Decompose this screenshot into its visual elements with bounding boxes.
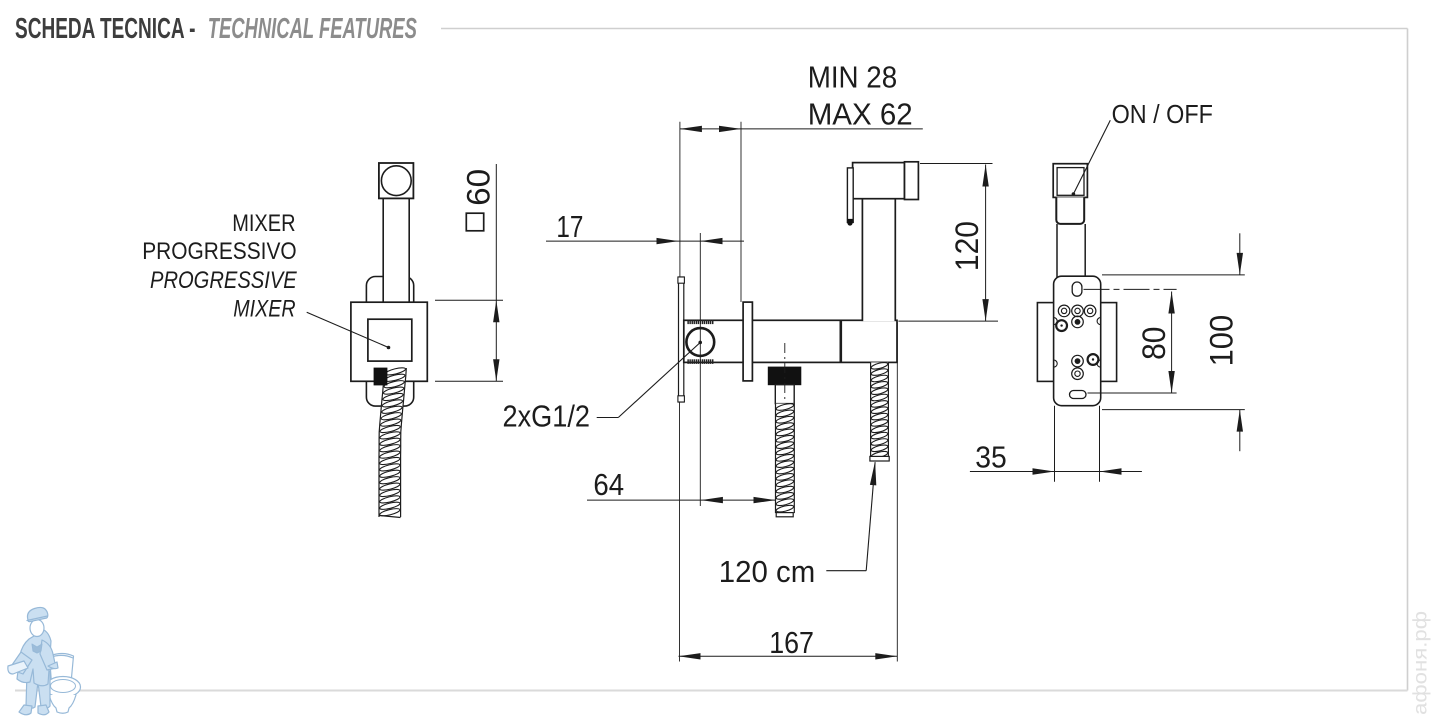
left view: flexible hose coil [379, 366, 406, 517]
front view: sliding escutcheon plate [743, 302, 752, 381]
dimension line 167 [679, 322, 898, 662]
dimension line 120 [898, 164, 998, 322]
svg-text:SCHEDA TECNICA -: SCHEDA TECNICA - [15, 13, 196, 45]
front view: hose nut (black) [768, 367, 801, 385]
dimension 35 [975, 440, 1007, 475]
rear view: bottom slot [1070, 391, 1087, 399]
left view: hose nut (black) [374, 368, 387, 385]
svg-text:64: 64 [593, 467, 624, 502]
square symbol for 60 [466, 213, 483, 231]
front view: sprayer head end cap [905, 162, 919, 200]
svg-text:60: 60 [461, 169, 497, 206]
left view: shower handle shaft [383, 197, 409, 322]
label: MIXER PROGRESSIVO / PROGRESSIVE MIXER [142, 210, 297, 323]
svg-text:MIN 28: MIN 28 [808, 60, 898, 95]
svg-text:120 cm: 120 cm [719, 554, 815, 589]
rear view: riser body behind plate [1057, 224, 1085, 303]
dimension MIN 28 / MAX 62 [808, 60, 913, 132]
front view: sprayer trigger lever [847, 168, 853, 226]
leader line from mixer label to block [307, 312, 391, 349]
svg-text:100: 100 [1203, 315, 1239, 367]
dimension 60 with square symbol [435, 164, 503, 381]
front view: main horizontal body bar [684, 320, 897, 362]
front view: vertical centerline through inlet [699, 233, 701, 506]
svg-text:MAX 62: MAX 62 [808, 97, 913, 132]
title: SCHEDA TECNICA [15, 13, 417, 45]
front view: thread hatch top [687, 320, 713, 325]
watermark: plumber with toilet (bottom left) [8, 607, 81, 714]
rear view: screw holes cluster [1056, 305, 1098, 379]
dimension 64 [593, 467, 624, 502]
svg-text:35: 35 [975, 440, 1007, 475]
dimension line 64 [587, 402, 776, 662]
rear view: sprayer button inner [1057, 168, 1084, 196]
left view: progressive mixer block [368, 319, 412, 361]
left view: wall plate square [351, 302, 427, 381]
dimension line 35 [970, 468, 1142, 474]
leader line 120 cm to hose end [826, 461, 876, 571]
svg-text:80: 80 [1136, 327, 1172, 360]
svg-text:MIXER: MIXER [232, 210, 295, 237]
svg-text:120: 120 [949, 221, 985, 271]
svg-text:17: 17 [556, 209, 583, 244]
label 120 cm [719, 554, 815, 589]
svg-text:167: 167 [769, 625, 814, 660]
svg-text:MIXER: MIXER [233, 296, 295, 323]
rear view: top slot [1072, 282, 1082, 296]
front view: hose connector sleeve [775, 385, 794, 404]
label ON / OFF [1112, 99, 1213, 129]
dimension line 17 [546, 238, 744, 244]
dimension 167 [769, 625, 814, 660]
svg-text:2xG1/2: 2xG1/2 [503, 399, 591, 434]
front view: body joint divider [839, 320, 842, 362]
front view: hose 1 coil [776, 402, 795, 517]
dimension 17 [556, 209, 583, 244]
rear view: sprayer head lower tube [1056, 197, 1084, 224]
front view: wall plate edge-on [678, 277, 685, 402]
label 2xG1/2 [503, 399, 591, 434]
leader line ON/OFF to button [1072, 120, 1111, 196]
front view: vertical riser body [862, 199, 895, 321]
rear view: holder plate rounded rect [1054, 276, 1101, 406]
svg-text:PROGRESSIVO: PROGRESSIVO [142, 238, 297, 265]
svg-text:PROGRESSIVE: PROGRESSIVE [150, 267, 298, 294]
left view: shower head square [379, 163, 414, 198]
page border right edge [1407, 29, 1409, 691]
svg-text:ON / OFF: ON / OFF [1112, 99, 1213, 129]
dimension text 60 rotated [461, 169, 497, 206]
watermark: vertical site text bottom right [1411, 611, 1432, 715]
rear view: sprayer button outer cap [1053, 164, 1087, 198]
dimension line 100 [1102, 233, 1245, 451]
rear view: edge notches on plate [1054, 318, 1101, 368]
page border bottom rule / ground line [15, 690, 1408, 692]
left view: shower head circle nozzle [381, 166, 411, 196]
front view: sprayer head body [853, 163, 905, 199]
left view: holder bracket rounded body [366, 277, 413, 407]
page border top rule [441, 28, 1408, 30]
svg-text:TECHNICAL FEATURES: TECHNICAL FEATURES [208, 13, 418, 45]
dimension 100 [1203, 315, 1239, 367]
dimension 120 [949, 221, 985, 271]
svg-text:афоня.рф: афоня.рф [1411, 611, 1432, 715]
front view: thread hatch bottom [687, 359, 713, 364]
front view: G1/2 inlet circle [686, 328, 714, 356]
dimension line MIN/MAX [680, 122, 923, 302]
leader line 2xG1/2 to inlet [597, 341, 702, 418]
dimension line 80 [1084, 289, 1177, 393]
front view: hose centerline dash-dot [784, 343, 786, 508]
dimension 80 [1136, 327, 1172, 360]
front view: hose 2 coil [870, 361, 889, 461]
rear view: body extension lines below plate (35 dim) [1055, 406, 1100, 482]
rear view: wall box behind plate [1037, 303, 1116, 382]
